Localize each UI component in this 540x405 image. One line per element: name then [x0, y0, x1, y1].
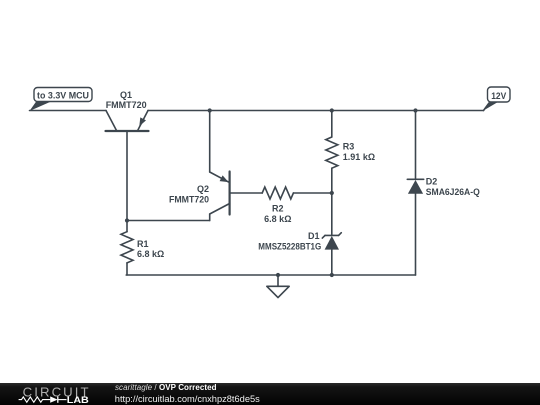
- svg-text:MMSZ5228BT1G: MMSZ5228BT1G: [258, 242, 321, 252]
- wire top rail left segment: [30, 110, 107, 112]
- svg-text:FMMT720: FMMT720: [106, 100, 147, 110]
- svg-text:R3: R3: [343, 142, 355, 152]
- ground: [267, 275, 289, 298]
- svg-text:D1: D1: [308, 231, 320, 241]
- svg-text:R1: R1: [137, 239, 149, 249]
- svg-text:R2: R2: [272, 204, 284, 214]
- node junction dot R2/R3/D1: [330, 191, 334, 195]
- svg-text:Q2: Q2: [197, 184, 209, 194]
- node junction dot top rail at R3: [330, 108, 334, 112]
- node junction dot Q1 base / R1 top: [125, 218, 129, 222]
- svg-text:1.91 kΩ: 1.91 kΩ: [343, 152, 375, 162]
- transistor Q1: [106, 90, 149, 131]
- resistor R2: [230, 187, 332, 224]
- resistor R3: [326, 111, 375, 194]
- resistor R1: [121, 221, 164, 276]
- wire top rail right segment: [148, 103, 489, 111]
- node flag to 3.3V MCU: [30, 88, 93, 112]
- svg-text:12V: 12V: [491, 91, 507, 102]
- node junction dot ground tap: [276, 273, 280, 277]
- diode D1 zener MMSZ5228BT1G: [258, 193, 341, 275]
- node flag 12V: [484, 87, 511, 111]
- svg-text:LAB: LAB: [67, 395, 89, 405]
- svg-text:Q1: Q1: [120, 90, 132, 100]
- svg-text:to 3.3V MCU: to 3.3V MCU: [37, 91, 89, 102]
- node junction dot top rail at Q2 collector: [208, 108, 212, 112]
- svg-text:6.8 kΩ: 6.8 kΩ: [137, 249, 164, 259]
- wire Q1 base to Q2 emitter: [127, 214, 210, 221]
- footer credit text: [115, 383, 260, 404]
- footer bar: [0, 383, 540, 405]
- svg-text:FMMT720: FMMT720: [169, 194, 209, 204]
- node junction dot top rail at D2: [413, 108, 417, 112]
- wire Q2 collector vertical: [209, 111, 211, 173]
- wire bottom rail: [126, 274, 415, 276]
- wire Q1 base vertical: [126, 131, 128, 221]
- transistor Q2: [169, 172, 230, 215]
- node junction dot D1 bottom: [330, 273, 334, 277]
- diode D2 SMA6J26A-Q: [407, 111, 480, 276]
- CircuitLab logo: [19, 384, 89, 405]
- svg-text:6.8 kΩ: 6.8 kΩ: [264, 214, 291, 224]
- svg-text:D2: D2: [426, 176, 438, 186]
- svg-text:http://circuitlab.com/cnxhpz8t: http://circuitlab.com/cnxhpz8t6de5s: [115, 394, 260, 404]
- svg-text:SMA6J26A-Q: SMA6J26A-Q: [426, 187, 480, 197]
- svg-text:scarittagle / OVP Corrected: scarittagle / OVP Corrected: [115, 383, 217, 392]
